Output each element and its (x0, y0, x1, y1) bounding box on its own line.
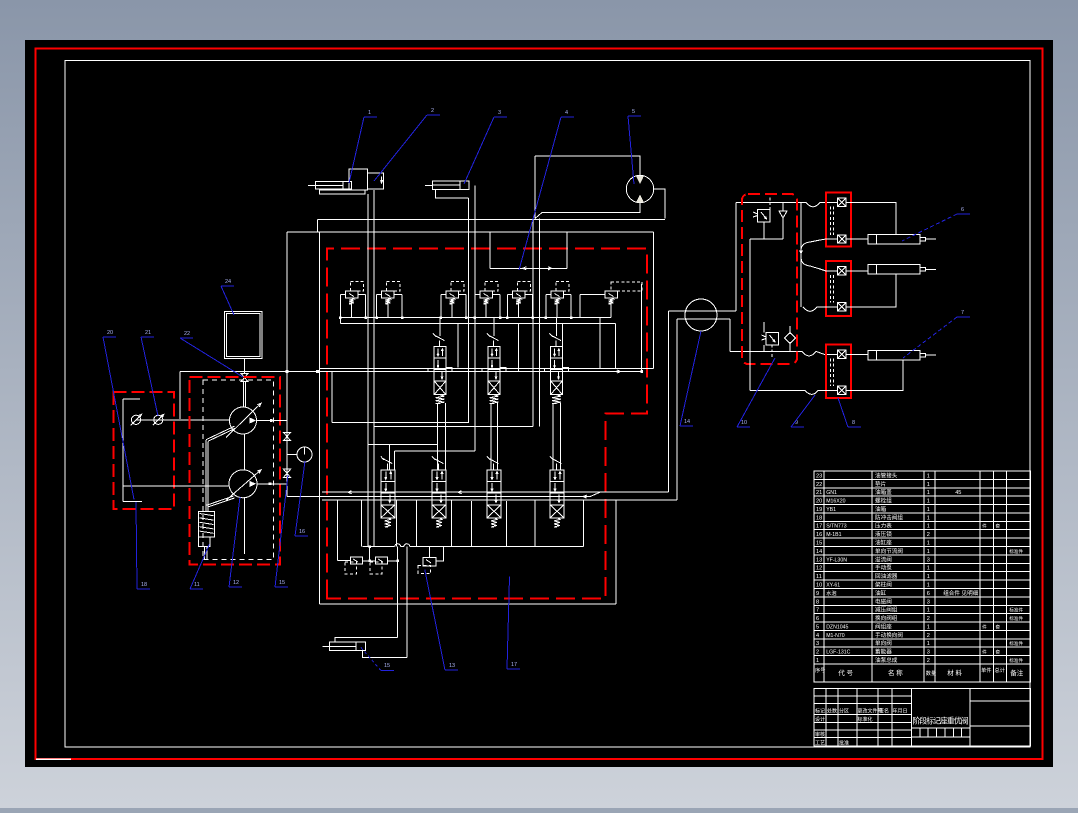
lock valve 1 lower port (838, 235, 846, 243)
svg-text:3: 3 (498, 110, 501, 116)
pump 2 variable arrow (226, 470, 261, 501)
wire - central manifold outline left edge (319, 232, 321, 604)
svg-text:压力表: 压力表 (875, 522, 892, 530)
svg-text:2: 2 (927, 616, 930, 622)
flow arrow lower bus b (458, 491, 462, 494)
svg-text:阶段标记座重优阀: 阶段标记座重优阀 (913, 716, 969, 726)
wire - pump 2 output (257, 483, 287, 485)
svg-text:电磁阀: 电磁阀 (875, 597, 892, 605)
white tick on red border bottom-left (36, 758, 71, 760)
svg-text:标记: 标记 (815, 708, 825, 715)
wire - distribution line y422 (332, 422, 469, 424)
svg-text:1: 1 (368, 110, 371, 116)
pump 1 variable arrow (226, 403, 261, 437)
wire - central manifold outline bottom edge (320, 603, 617, 605)
lock valve 1 upper port (838, 198, 846, 206)
svg-text:套: 套 (996, 649, 1001, 656)
svg-text:11: 11 (816, 574, 822, 580)
lock valve 2 pilot dashes (830, 275, 832, 303)
svg-text:年月日: 年月日 (893, 708, 908, 715)
wire - cyl3 piping (846, 353, 868, 355)
solenoid spool valve S3 (middle row) (550, 333, 553, 337)
svg-text:名 称: 名 称 (888, 668, 903, 677)
hydraulic cylinder 2 (868, 265, 920, 275)
svg-text:处数: 处数 (827, 708, 837, 715)
wire - bus line upper B (287, 231, 653, 233)
wire - pump 1 output (257, 420, 288, 422)
svg-text:23: 23 (816, 473, 822, 479)
svg-text:8: 8 (816, 599, 819, 605)
svg-text:蓄能器: 蓄能器 (875, 648, 892, 656)
svg-text:单向阀: 单向阀 (875, 639, 892, 647)
svg-text:18: 18 (141, 582, 147, 588)
shutoff valve upper (283, 432, 290, 436)
wire - connector middle valve S2 to lower valve M3 (490, 403, 492, 470)
svg-text:1: 1 (927, 574, 930, 580)
svg-text:序号: 序号 (815, 666, 825, 674)
wire - distribution line y444 (368, 444, 438, 446)
shuttle pilot valve P1 (bottom row) (350, 557, 362, 564)
wire - lower return branch from gauge standpipe (287, 496, 590, 498)
arrow on return bus (800, 250, 803, 253)
hose symbol on pressure line (806, 202, 820, 207)
svg-text:5: 5 (816, 624, 819, 630)
svg-text:2: 2 (927, 658, 930, 664)
parts list table (814, 471, 1031, 682)
wire - drop from mid bus to distribution (331, 372, 333, 423)
svg-text:1: 1 (927, 482, 930, 488)
shutoff valve lower (283, 469, 290, 473)
svg-text:3: 3 (927, 557, 930, 563)
pressure gauge (297, 447, 312, 462)
wire - drain loop valve M4 (534, 500, 536, 547)
svg-text:10: 10 (816, 582, 822, 588)
hose to lock valve 3 lower (750, 389, 805, 391)
pilot operated check valve V1 (top row) (345, 291, 358, 298)
motor arrow top (636, 176, 644, 184)
svg-text:7: 7 (816, 608, 819, 614)
lock valve 3 lower port (838, 386, 846, 394)
svg-text:梷柱阀: 梷柱阀 (875, 580, 892, 588)
svg-text:代 号: 代 号 (838, 668, 853, 677)
svg-text:套: 套 (996, 623, 1001, 630)
wire - feed pair to lower valve M1 (389, 445, 391, 470)
svg-text:2: 2 (927, 532, 930, 538)
relief valve upper in group (758, 210, 771, 223)
svg-text:1: 1 (927, 566, 930, 572)
svg-text:水泡: 水泡 (826, 589, 836, 597)
red boundary - lock valve box 2 (826, 261, 851, 316)
hand pump unit 3 cylinder body (432, 181, 468, 189)
svg-text:1: 1 (927, 549, 930, 555)
hand pump unit 3 rod (425, 184, 432, 186)
svg-text:19: 19 (816, 507, 822, 513)
svg-text:1: 1 (927, 582, 930, 588)
svg-text:组合件 见明细: 组合件 见明细 (943, 589, 979, 597)
svg-text:12: 12 (233, 580, 239, 586)
pilot operated check valve V3 (top row) (446, 291, 459, 298)
wire - mid bus line 2 (180, 371, 642, 373)
svg-text:24: 24 (225, 279, 231, 285)
shuttle pilot valve P3 (bottom row) (423, 558, 436, 566)
svg-text:16: 16 (299, 529, 305, 535)
title block grid (814, 689, 1031, 747)
svg-text:7: 7 (961, 310, 964, 316)
svg-text:45: 45 (955, 490, 961, 496)
wire - feed drop to spool S2 (517, 323, 519, 371)
wire - right connector bus B to mid bus (652, 232, 654, 369)
svg-text:溢流阀: 溢流阀 (875, 555, 892, 563)
svg-text:1: 1 (927, 541, 930, 547)
wire - pump 2 to control box (244, 498, 246, 554)
svg-text:1: 1 (816, 658, 819, 664)
pilot operated check valve V7 (top row, wide pilot box) (605, 291, 618, 298)
manual spool valve M3 (lower row) (487, 456, 490, 460)
wire - connector middle valve S1 to lower valve M2 (437, 403, 439, 470)
svg-text:1: 1 (927, 641, 930, 647)
svg-text:总计: 总计 (995, 666, 1005, 674)
wire - lower bus line 1 (322, 491, 669, 493)
svg-text:20: 20 (816, 499, 822, 505)
svg-text:件: 件 (982, 649, 987, 656)
red dashed boundary - main pump unit (190, 377, 281, 565)
wire - feed drop to spool S1 (457, 323, 459, 367)
junction node pump1 output (270, 419, 273, 422)
pilot operated check valve V2 (top row) (382, 291, 395, 298)
lock valve 2 upper port (838, 267, 846, 275)
white drawing frame (65, 61, 1030, 748)
hydraulic cylinder 3 (868, 350, 920, 360)
svg-text:签名: 签名 (879, 708, 889, 715)
wire - cyl1 piping (846, 202, 896, 234)
wire - pilot pressure bus lower twin (340, 322, 615, 324)
svg-text:标准件: 标准件 (1009, 615, 1023, 622)
wire - connector middle valve S3 to lower valve M4 (552, 403, 554, 470)
oil tank double walled box (225, 312, 263, 359)
svg-text:分区: 分区 (839, 708, 849, 715)
svg-text:2: 2 (816, 650, 819, 656)
wire - stem above spool valve S3 (556, 317, 558, 336)
svg-text:M-1B1: M-1B1 (826, 532, 841, 538)
hand pump unit 1 valve box (349, 169, 367, 190)
svg-text:批准: 批准 (839, 740, 849, 747)
svg-text:换向阀组: 换向阀组 (875, 614, 898, 622)
solenoid spool valve S1 (middle row) (433, 333, 436, 337)
svg-text:油缸座: 油缸座 (875, 539, 892, 547)
wire - pilot drop to mid bus (599, 318, 601, 369)
svg-text:数量: 数量 (926, 669, 936, 677)
flow arrow on mid bus (617, 370, 621, 373)
wire - cyl2 piping (846, 270, 868, 272)
svg-text:单件: 单件 (981, 666, 991, 674)
svg-text:工艺: 工艺 (815, 741, 825, 747)
check valve upper in group (779, 211, 787, 218)
svg-text:回油滤器: 回油滤器 (875, 572, 898, 580)
hydraulic motor circle (626, 175, 653, 202)
svg-text:油管接头: 油管接头 (875, 471, 898, 479)
junction node on mid bus (286, 370, 289, 373)
svg-text:1: 1 (927, 499, 930, 505)
svg-text:5: 5 (632, 109, 635, 115)
wire - pressure line to cylinder valves (736, 201, 806, 203)
hose to lock valve 1 lower (801, 239, 826, 251)
svg-text:4: 4 (816, 633, 819, 639)
svg-text:10: 10 (741, 420, 747, 426)
pilot operated check valve V6 (top row) (551, 291, 564, 298)
svg-text:6: 6 (816, 616, 819, 622)
hose on return at lock valve 2 lower (803, 307, 817, 312)
svg-text:审核: 审核 (815, 731, 825, 738)
hand pump unit 1 cylinder body (315, 181, 351, 188)
hose to lock valve 2 upper (801, 257, 826, 271)
lock valve 3 pilot dashes (830, 359, 832, 387)
svg-text:22: 22 (184, 331, 190, 337)
hand pump unit 2 internal arrow (381, 177, 383, 183)
svg-text:防冲击阀组: 防冲击阀组 (875, 513, 903, 521)
svg-text:标准件: 标准件 (1009, 607, 1023, 614)
relief valve lower in group (766, 333, 779, 346)
red boundary - lock valve box 1 (826, 193, 851, 247)
svg-text:14: 14 (816, 549, 822, 555)
wire - suction line (136, 419, 230, 421)
red dashed boundary - suction filter group (114, 392, 175, 509)
svg-text:单向节流阀: 单向节流阀 (875, 547, 903, 555)
wire - stem above spool valve S2 (493, 317, 495, 336)
pilot operated check valve V5 (top row) (512, 291, 525, 298)
motor arrow bottom (636, 195, 644, 203)
svg-text:备注: 备注 (1010, 668, 1024, 677)
svg-text:1: 1 (927, 524, 930, 530)
svg-text:YB1: YB1 (826, 507, 836, 513)
shuttle pilot valve P2 (bottom row) (376, 557, 388, 564)
svg-text:1: 1 (927, 608, 930, 614)
wire - return drop to filter line (179, 372, 181, 419)
svg-text:4: 4 (565, 110, 568, 116)
wire - drop from relief 7 pilot to mid bus (641, 284, 643, 372)
wire - cylinder group return bus (800, 202, 802, 306)
wire - internal vertical (763, 322, 765, 333)
wire - drain loop valve M1 (361, 500, 363, 547)
wire - central manifold outline right edge lower (615, 500, 617, 604)
svg-text:油泵总成: 油泵总成 (875, 656, 898, 664)
manual spool valve M1 (lower row) (381, 456, 384, 460)
control cylinder with spring (199, 512, 215, 538)
svg-text:件: 件 (982, 523, 987, 530)
svg-text:3: 3 (816, 641, 819, 647)
svg-text:3: 3 (927, 650, 930, 656)
wire - group internal lines (763, 222, 765, 239)
svg-text:6: 6 (927, 591, 930, 597)
svg-text:2: 2 (927, 633, 930, 639)
svg-text:设计: 设计 (815, 716, 825, 723)
wire - riser pair from hand pump unit 3 (467, 198, 469, 422)
svg-text:LGF-131C: LGF-131C (826, 650, 850, 656)
svg-text:2: 2 (431, 108, 434, 114)
lock valve 3 upper port (838, 350, 846, 358)
wire - unit 3 lower port routing (436, 189, 469, 198)
wire - motor loop (535, 156, 640, 175)
wire - bottom pump connections (335, 638, 398, 643)
hydraulic cylinder 1 (868, 234, 920, 244)
svg-text:9: 9 (816, 591, 819, 597)
manual spool valve M4 (lower row) (550, 456, 553, 460)
svg-text:XY-61: XY-61 (826, 582, 840, 588)
svg-text:14: 14 (684, 419, 690, 425)
svg-text:减压阀组: 减压阀组 (875, 606, 898, 614)
filter check valve 1 (131, 415, 140, 424)
svg-text:15: 15 (384, 663, 390, 669)
svg-text:1: 1 (927, 515, 930, 521)
flow arrow right (548, 267, 552, 270)
manual spool valve M2 (lower row) (432, 456, 435, 460)
svg-text:16: 16 (816, 532, 822, 538)
svg-text:13: 13 (816, 557, 822, 563)
wire - pilot valve row piping (337, 500, 339, 560)
svg-text:S/TN773: S/TN773 (826, 524, 847, 530)
wire - feed drop to spool S3 (562, 323, 564, 367)
flow arrow lower bus a (348, 491, 352, 494)
wire - return line to pump 2 (123, 485, 229, 487)
main pump circle (right) (685, 299, 717, 331)
svg-text:1: 1 (927, 473, 930, 479)
svg-text:油箱: 油箱 (875, 505, 887, 513)
svg-text:DZN1045: DZN1045 (826, 624, 848, 630)
svg-text:标准件: 标准件 (1009, 640, 1023, 647)
hand pump unit bottom body (329, 642, 365, 650)
svg-text:油箱盖: 油箱盖 (875, 488, 892, 496)
wire - drain loop valve M3 (471, 501, 473, 547)
junction node pump2 output (269, 482, 272, 485)
svg-text:17: 17 (511, 662, 517, 668)
wire - pump suction pair left (669, 310, 737, 312)
svg-text:17: 17 (816, 524, 822, 530)
svg-text:3: 3 (927, 599, 930, 605)
wire - check line with flow arrows (490, 267, 567, 269)
white dashed boundary - pump subgroup (203, 380, 274, 559)
wire - riser pair from hand pump unit 1 (367, 194, 369, 547)
svg-text:套: 套 (996, 523, 1001, 530)
hand pump unit base plate (320, 190, 365, 194)
pilot operated check valve V4 (top row) (480, 291, 493, 298)
hand pump unit 1 rod (308, 184, 315, 186)
svg-text:11: 11 (194, 582, 200, 588)
wire - distribution line y426 (374, 426, 533, 428)
svg-text:1: 1 (927, 624, 930, 630)
wire - bottom drain bus (363, 546, 395, 548)
svg-text:垫片: 垫片 (875, 480, 887, 488)
svg-text:螺栓组: 螺栓组 (875, 497, 892, 505)
hand pump unit 2 valve box (367, 173, 383, 189)
wire - left end connector (316, 220, 318, 232)
svg-text:标准化: 标准化 (858, 716, 873, 723)
svg-text:M16X20: M16X20 (826, 499, 845, 505)
hand pump unit bottom rod (322, 646, 329, 648)
svg-text:1: 1 (927, 507, 930, 513)
flow arrow left (523, 267, 527, 270)
wire - drop pair below central block (397, 547, 399, 638)
wire - pilot pressure bus (340, 317, 611, 319)
svg-text:材 料: 材 料 (947, 668, 962, 677)
svg-text:M1-N70: M1-N70 (826, 633, 845, 639)
svg-text:手动换向阀: 手动换向阀 (875, 631, 903, 639)
wire - shaft between pumps (244, 434, 246, 470)
wire - stem above spool valve S1 (439, 317, 441, 336)
svg-text:18: 18 (816, 515, 822, 521)
wire - pump pressure riser up (735, 202, 737, 311)
wire - mid bus line 1 (320, 368, 654, 370)
filter check valve 2 (154, 415, 163, 424)
svg-text:件: 件 (982, 623, 987, 630)
check valve below tank (241, 373, 248, 377)
svg-text:15: 15 (279, 580, 285, 586)
red dashed boundary - counterbalance valve group (742, 194, 797, 364)
wire - gauge stub (287, 454, 297, 456)
wire - motor loop bottom tie (535, 213, 542, 219)
pilot dashed line lower (771, 345, 773, 358)
junction nodes on pilot row (368, 545, 371, 548)
variable displacement pump 1 (230, 407, 257, 434)
servo linkage rods (206, 426, 235, 440)
solenoid spool valve S2 (middle row) (487, 333, 490, 337)
svg-text:1: 1 (927, 490, 930, 496)
lock valve 2 lower port (838, 303, 846, 311)
wire - distribution line y451 (395, 450, 476, 452)
check diamond lower (784, 332, 795, 343)
flow arrow lower bus c (583, 495, 587, 498)
svg-text:手动泵: 手动泵 (875, 564, 892, 572)
wire - riser pair from motor loop (532, 219, 534, 427)
wire - pump risers down to return buses (668, 311, 670, 492)
wire - bus line upper A (317, 219, 665, 221)
wire - lower bus line 2 (322, 499, 677, 501)
svg-text:标准件: 标准件 (1009, 548, 1023, 555)
svg-text:22: 22 (816, 482, 822, 488)
red dashed boundary - central valve group (327, 249, 647, 599)
svg-text:阀组座: 阀组座 (875, 622, 892, 630)
svg-text:油缸: 油缸 (875, 589, 887, 597)
svg-text:6: 6 (961, 207, 964, 213)
hose symbol on lower line (802, 351, 824, 356)
wire - filter internal drop (122, 399, 124, 502)
junction node at mid bus right end (640, 370, 643, 373)
pilot dashed line upper (769, 196, 771, 210)
svg-text:8: 8 (852, 420, 855, 426)
svg-text:YF-L30N: YF-L30N (826, 557, 847, 563)
svg-text:GN1: GN1 (826, 490, 837, 496)
svg-text:20: 20 (107, 330, 113, 336)
lock valve 1 pilot dashes (830, 207, 832, 235)
svg-text:标准件: 标准件 (1009, 657, 1023, 664)
wire - tank outlet down (244, 359, 246, 374)
variable displacement pump 2 (229, 470, 257, 498)
wire - secondary line down right (729, 319, 731, 351)
svg-text:15: 15 (816, 541, 822, 547)
svg-text:12: 12 (816, 566, 822, 572)
svg-text:13: 13 (449, 663, 455, 669)
svg-text:液压锁: 液压锁 (875, 530, 892, 538)
red boundary - lock valve box 3 (826, 345, 851, 399)
wire - drain loop valve M2 (416, 500, 418, 547)
svg-text:21: 21 (816, 490, 822, 496)
svg-text:21: 21 (145, 330, 151, 336)
wire - gauge standpipe (286, 232, 288, 497)
